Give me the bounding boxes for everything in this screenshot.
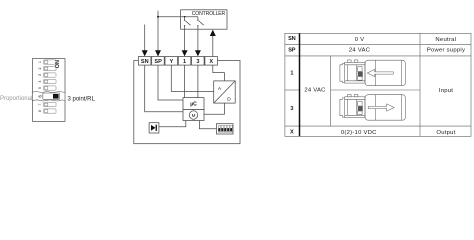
node: junction bus/switch1	[184, 16, 186, 18]
flange	[340, 63, 345, 82]
ears	[348, 60, 352, 62]
svg-text:8: 8	[38, 110, 42, 112]
svg-text:X: X	[209, 59, 213, 65]
svg-text:SN: SN	[288, 36, 296, 42]
motor M	[189, 111, 197, 119]
wire bus to controller switches	[158, 16, 198, 18]
internal wires	[145, 65, 225, 129]
node: switch 1 contacts	[184, 20, 185, 21]
terminal 1	[178, 57, 191, 66]
body	[365, 95, 406, 121]
svg-text:D: D	[227, 97, 231, 103]
arrow into 1	[182, 50, 188, 56]
svg-text:5: 5	[38, 87, 42, 89]
wire X up to controller	[212, 35, 214, 56]
svg-text:1: 1	[290, 70, 293, 76]
microcontroller uC	[183, 98, 204, 110]
svg-text:M: M	[192, 113, 196, 118]
terminal SN	[138, 57, 151, 66]
ears	[348, 94, 352, 96]
terminal labels SN SP Y 1 3 X	[141, 59, 213, 65]
column line 24VAC/symbols	[330, 56, 332, 126]
switch row 8	[44, 109, 57, 113]
flange	[340, 98, 345, 117]
row numbers 1-8	[38, 61, 42, 112]
switch contact to terminal 1	[185, 17, 191, 51]
svg-text:3: 3	[290, 106, 293, 112]
row line SN/SP	[285, 44, 471, 46]
svg-text:0 V: 0 V	[355, 37, 365, 43]
wire X to A/D	[213, 65, 225, 81]
switch row 4	[44, 79, 57, 83]
wire A/D to motor	[204, 103, 224, 114]
wire Y to A/D	[171, 65, 213, 91]
connector boxes	[358, 67, 362, 72]
actuator pictogram row 1 (arrow left)	[340, 60, 406, 86]
svg-text:3: 3	[196, 59, 199, 65]
svg-text:1: 1	[183, 59, 186, 65]
svg-text:CONTROLLER: CONTROLLER	[192, 11, 226, 17]
svg-text:Neutral: Neutral	[435, 37, 456, 43]
svg-text:1: 1	[38, 61, 42, 63]
svg-text:0(2)-10 VDC: 0(2)-10 VDC	[341, 130, 377, 136]
thick column line after labels	[299, 33, 301, 136]
arrow into SN	[142, 50, 148, 56]
wire SN to motor	[145, 65, 183, 112]
wire motor to DIP block	[199, 121, 216, 129]
connector boxes	[358, 101, 362, 106]
wire 1 to uC	[184, 65, 186, 98]
svg-text:SP: SP	[154, 59, 162, 65]
wire SN supply	[144, 25, 146, 52]
switch row 3	[44, 73, 57, 77]
svg-text:3 point/RL: 3 point/RL	[68, 96, 96, 102]
arrow into 3	[195, 50, 201, 56]
wire motor to button	[159, 121, 186, 127]
terminal SP	[152, 57, 165, 66]
DIP switch body S1	[33, 59, 66, 122]
column line values/descriptions	[419, 33, 421, 136]
magnified switch 6 band (torn edges)	[33, 92, 65, 100]
body	[365, 60, 406, 85]
actuator enclosure	[134, 61, 240, 144]
switch 6 slider magnified	[38, 93, 60, 100]
mount block	[345, 97, 365, 118]
switch rows 1-5,7,8	[44, 60, 57, 113]
svg-text:SN: SN	[141, 59, 149, 65]
svg-text:2: 2	[38, 67, 42, 69]
svg-text:4: 4	[38, 80, 42, 82]
actuator pictogram row 3 (arrow right)	[340, 94, 406, 120]
direction arrow right	[368, 104, 394, 111]
direction arrow left	[367, 69, 393, 76]
svg-text:Y: Y	[170, 59, 174, 65]
arrow X into controller	[210, 30, 216, 36]
svg-text:Power supply: Power supply	[427, 47, 465, 53]
svg-text:SP: SP	[288, 47, 296, 53]
arrow into SP	[155, 50, 161, 56]
A/D converter	[214, 81, 236, 103]
svg-text:24 VAC: 24 VAC	[304, 88, 326, 94]
terminal strip	[138, 57, 217, 66]
switch row 1	[44, 60, 57, 64]
row line SP/1	[285, 55, 471, 57]
node: junction SP/bus	[157, 16, 159, 18]
switch row 5	[44, 86, 57, 90]
node: switch 2 contacts	[197, 20, 198, 21]
svg-text:6: 6	[38, 95, 43, 98]
controller box	[181, 10, 227, 29]
table frame	[285, 33, 471, 136]
terminal X	[205, 57, 218, 66]
svg-text:Proportional: Proportional	[0, 96, 32, 102]
svg-text:X: X	[290, 130, 294, 136]
row line 3/X	[285, 125, 471, 127]
motor box	[183, 110, 204, 121]
svg-text:3: 3	[38, 74, 42, 76]
svg-text:Input: Input	[439, 88, 453, 94]
wire SP to uC	[158, 65, 183, 100]
wire SP supply riser	[157, 11, 159, 56]
row line 1/3 right	[331, 89, 420, 91]
svg-text:7: 7	[38, 103, 42, 105]
row line 1/3 left	[285, 89, 300, 91]
svg-text:µC: µC	[190, 101, 197, 107]
pushbutton S	[149, 123, 159, 133]
DIP block	[217, 124, 234, 134]
switch contact to terminal 3	[198, 17, 204, 51]
wire 3 to uC	[197, 65, 199, 98]
switch row 7	[44, 102, 57, 106]
terminal Y	[165, 57, 178, 66]
svg-text:Output: Output	[436, 130, 455, 136]
svg-text:24 VAC: 24 VAC	[349, 47, 371, 53]
mount block	[345, 62, 365, 83]
terminal 3	[192, 57, 205, 66]
switch row 2	[44, 66, 57, 70]
